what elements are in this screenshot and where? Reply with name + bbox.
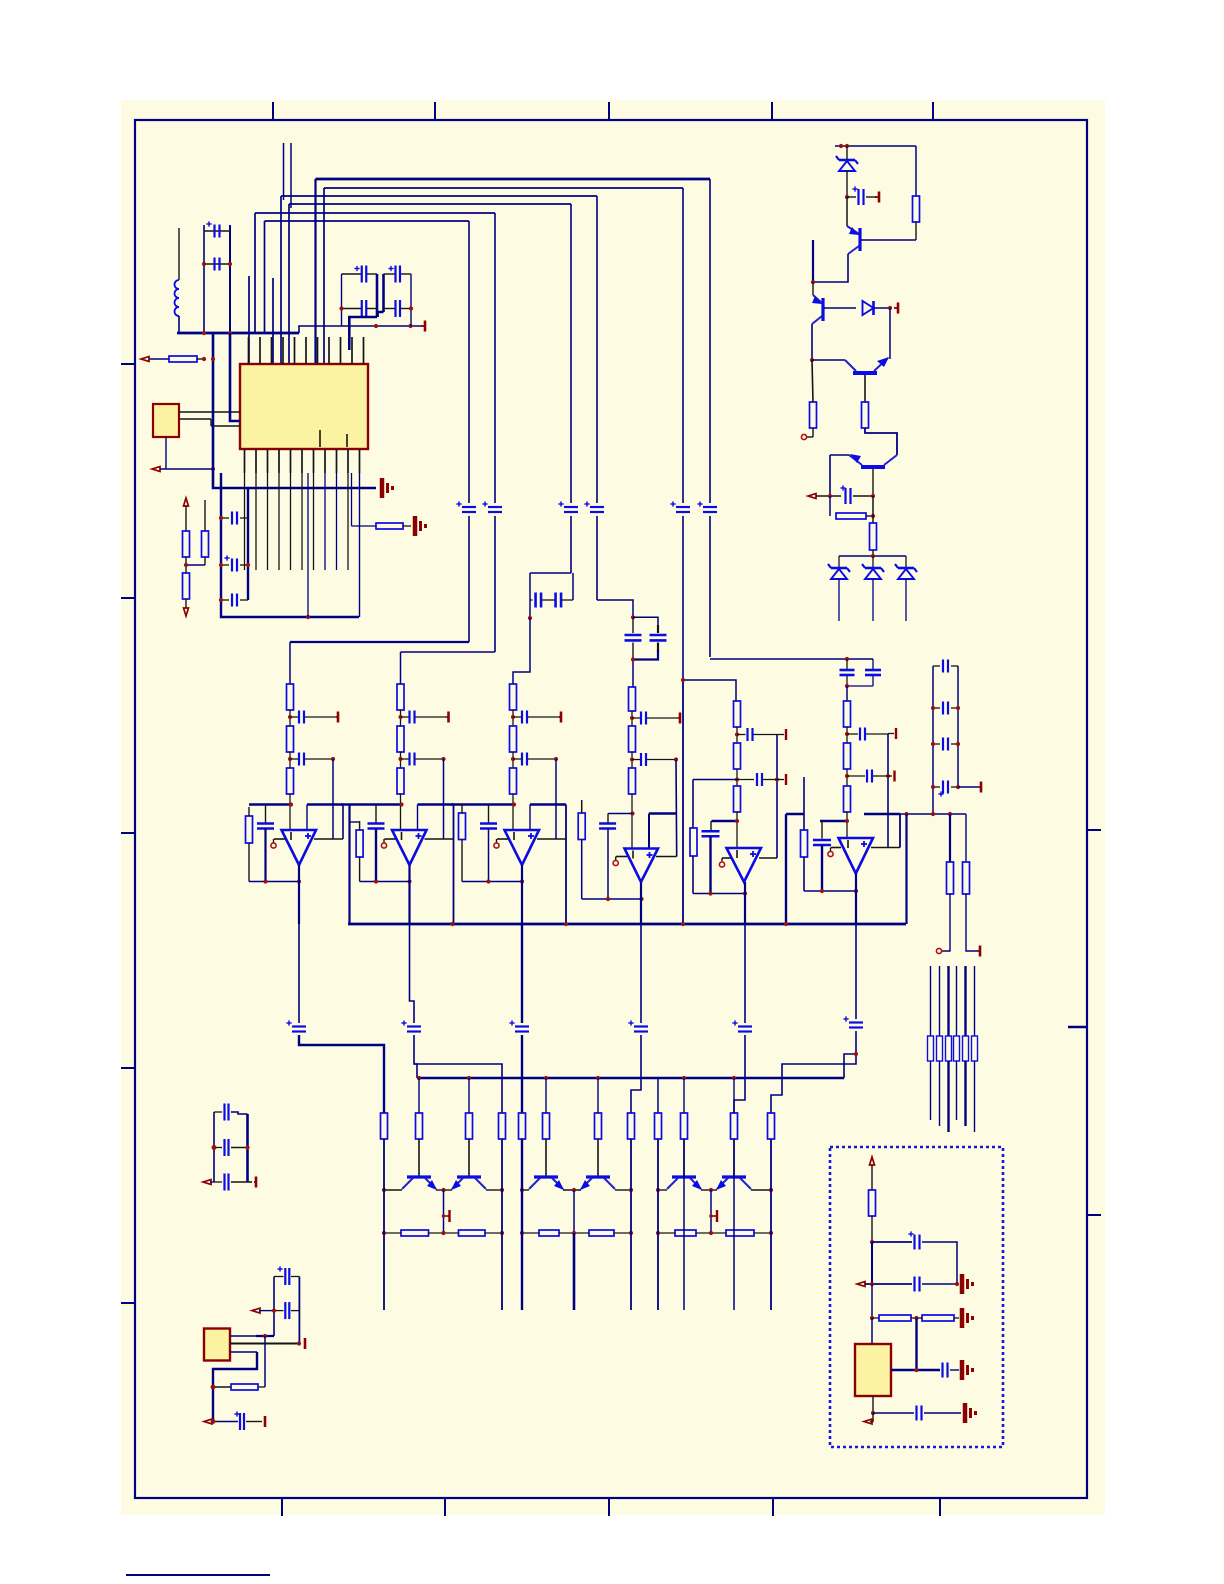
transistor Q4 PNP [849, 454, 897, 467]
capacitor C3c [480, 824, 497, 829]
wire distribution vertical x=495 lower [494, 516, 496, 652]
IC U1 [240, 364, 368, 449]
junction dot [306, 615, 310, 619]
capacitor series electrolytic x=597 [584, 501, 604, 512]
wire cap pair top [204, 230, 230, 232]
capacitor trio 3 [214, 1174, 252, 1191]
wire emitter up Q3 [889, 308, 891, 359]
wire bottom loop ch1 [249, 881, 299, 883]
wire out6 rail [771, 1054, 856, 1113]
wire cap stub ch5 [710, 821, 712, 831]
resistor array g3 x=771 [768, 1113, 775, 1139]
wire cap colB rails [384, 274, 412, 326]
wire out3 upper [521, 924, 523, 1023]
capacitor series electrolytic x=571 [558, 501, 578, 512]
capacitor C6a [847, 728, 888, 741]
power T-bar right section [978, 946, 980, 957]
wire bottom loop ch5 [693, 893, 745, 895]
wire minus input ch6 [831, 847, 841, 849]
wire q row [816, 495, 841, 497]
resistor R1c [287, 768, 294, 830]
zener D3 [828, 564, 850, 579]
wire ch3 drop [513, 618, 530, 684]
regulator U box [855, 1344, 891, 1396]
junction dot [184, 563, 188, 567]
resistor Re g2 left [539, 1230, 559, 1236]
capacitor C5a [737, 728, 777, 741]
wire out4 route [631, 1035, 641, 1113]
transistor Q g1 left NPN [402, 1177, 437, 1190]
wire array long vertical x=574 [573, 1233, 576, 1310]
wire bus line 1 left vertical [314, 179, 316, 364]
capacitor C1b [290, 753, 333, 766]
junction dot [408, 324, 412, 328]
junction dot [263, 879, 301, 883]
capacitor C1c [257, 824, 274, 829]
wire thick jog colB [378, 312, 384, 317]
resistor R horizontal [169, 356, 197, 362]
terminal circle ch4 [613, 857, 618, 866]
junction dot [674, 757, 678, 761]
wire distribution vertical x=571 upper [570, 204, 572, 503]
junction dot [398, 715, 402, 719]
junction dot [631, 615, 635, 619]
wire arrow to resistor [149, 358, 169, 360]
capacitor C4b [632, 753, 676, 766]
terminal circle out [801, 434, 806, 439]
capacitor block B 2 [650, 635, 667, 640]
resistor R q2 [870, 523, 877, 550]
wire out5 upper [744, 924, 746, 1023]
wire g3 center down [710, 1190, 712, 1233]
wire cap down ch4 [607, 829, 609, 900]
op-amp U2 [392, 830, 427, 865]
wire g3 left rail [657, 1139, 659, 1310]
capacitor electrolytic B2 [384, 300, 412, 317]
wire reg bottom right [246, 1421, 262, 1423]
op-amp U4 [625, 849, 659, 883]
wire g1 base leads [419, 1139, 469, 1176]
capacitor electrolytic A1 [342, 266, 378, 283]
border ticks bottom [282, 1498, 940, 1516]
wire node thick left ch3 [451, 803, 515, 805]
resistor R box h2 [922, 1315, 954, 1321]
wire reg cap rails [274, 1277, 299, 1344]
wire distribution vertical x=683 upper [682, 188, 684, 503]
wire main rail horizontal [177, 332, 299, 335]
capacitor block C 1 [840, 659, 855, 686]
resistor R2b [397, 726, 404, 768]
wire distribution vertical x=683 lower [682, 516, 684, 680]
resistor R1d [246, 816, 253, 843]
wire node thick right ch6 [864, 814, 900, 848]
wire q res2 down [872, 550, 874, 556]
wire g1 right rail [501, 1139, 503, 1310]
wire out1 route [299, 1035, 384, 1113]
capacitor series electrolytic x=495 [482, 501, 502, 512]
wire g2 left collector [522, 1189, 529, 1191]
wire box bottom right [924, 1412, 961, 1414]
wire box reg bottom [872, 1396, 874, 1413]
junction dot [202, 262, 206, 266]
wire cap stub ch1 [265, 805, 267, 824]
wire outer rail ch2 [348, 805, 350, 925]
op-amp U1 [282, 830, 317, 865]
regulator pin 3 [213, 1352, 257, 1422]
capacitor C2c [368, 824, 385, 829]
junction dot [631, 657, 635, 661]
wire ch2 input horizontal [401, 651, 496, 653]
wire Q1 collector down [813, 254, 848, 282]
junction dot [708, 891, 747, 895]
power port arrow down [184, 608, 189, 616]
inductor L1 top wire [178, 228, 180, 280]
junction dot [263, 1334, 267, 1338]
capacitor Cout5 electrolytic [732, 1020, 752, 1031]
wire q res right [866, 515, 873, 517]
wire rv join [186, 557, 205, 573]
wire g2 base leads [546, 1139, 598, 1176]
power port T-bar [421, 321, 425, 332]
wire out2 route [414, 1035, 502, 1113]
wire box bottom row [873, 1412, 914, 1414]
junction dot [888, 306, 892, 310]
wire ch1 input horizontal [290, 641, 469, 643]
wire g1 right collector [486, 1189, 502, 1191]
junction dot [709, 1214, 713, 1218]
wire g3 right rail [770, 1139, 772, 1310]
resistor Rv1 [183, 531, 190, 557]
wire node left ch4 [608, 813, 633, 815]
wire node thick left ch5 [712, 820, 738, 822]
terminal circle ch1 [271, 839, 276, 848]
terminal circle ch3 [494, 839, 499, 848]
wire bus line 3 horizontal [281, 195, 597, 197]
power port arrow box bottom [864, 1413, 873, 1424]
junction dot [931, 742, 960, 746]
wire output ch1 [298, 865, 300, 924]
wire g3 left collector [658, 1189, 667, 1191]
resistor R3c [510, 768, 517, 830]
junction dot [630, 811, 634, 815]
capacitor block A 2 [556, 593, 573, 608]
transistor Q g2 left NPN [529, 1177, 564, 1190]
wire ladder tbar [958, 786, 979, 788]
wire to Q2 [812, 282, 814, 295]
wire top right down [915, 146, 917, 196]
wire caps3 right rail [247, 488, 249, 600]
ground box reg [962, 1360, 974, 1380]
wire cap down ch3 [488, 829, 490, 882]
junction dot [211, 1385, 216, 1390]
power port arrow left q [808, 494, 816, 499]
resistor array g1 x=469 [466, 1113, 473, 1139]
ground box bottom [965, 1403, 977, 1423]
power T-bar C5b [777, 774, 786, 785]
wire plus input ch5 [759, 857, 777, 859]
junction dot [331, 757, 335, 761]
terminal circle ch2 [381, 839, 386, 848]
wire output ch6 [855, 874, 857, 925]
resistor array g1 x=419 [416, 1113, 423, 1139]
wire Q3 to Q4 [865, 428, 897, 455]
wire rail to bus ch4 [682, 680, 684, 924]
wire d tail2 [872, 579, 874, 621]
wire ch6 drop [846, 686, 848, 701]
wire minus input ch2 [385, 838, 396, 840]
junction dot [606, 897, 644, 901]
junction dot [914, 1368, 918, 1372]
connector J1 bottom pin [165, 437, 167, 469]
wire bus to ladder [905, 814, 907, 924]
ground box res row [962, 1308, 974, 1328]
wire right rail ch3 [565, 805, 567, 925]
power T-bar g1 [444, 1210, 450, 1222]
wire reg res stubs [213, 1386, 265, 1388]
capacitor C box electrolytic [872, 1231, 957, 1284]
power port arrow reg [252, 1308, 274, 1313]
resistor Re g3 left [675, 1230, 696, 1236]
capacitor Cout4 electrolytic [628, 1020, 648, 1031]
junction dot [630, 716, 634, 720]
capacitor C6c [813, 840, 831, 845]
wire fb rail ch4 [675, 760, 678, 857]
wire Q4 base down [872, 469, 874, 496]
junction dot [520, 1188, 633, 1192]
wire Q3 collector down [864, 375, 866, 402]
resistor R right 1 [947, 862, 954, 894]
wire caps3 cap1 [221, 517, 248, 519]
wire pin up from rail B [359, 473, 361, 617]
junction dot [871, 1411, 875, 1415]
power T-bar reg [304, 1338, 307, 1349]
border ticks left [121, 364, 135, 1303]
wire distribution vertical x=710 lower [709, 516, 711, 657]
wire fb rail ch6 [887, 734, 889, 848]
junction dot [288, 715, 292, 719]
wire ladder rails [933, 666, 958, 814]
capacitor block C 2 [847, 659, 881, 686]
wire caps3 cap3 [221, 599, 248, 601]
wire Q2 collector down [811, 324, 813, 360]
wire bus line 6 left vertical [264, 221, 266, 333]
wire node thick left ch1 [249, 803, 291, 805]
resistor array g1 x=502 [499, 1113, 506, 1139]
wire bus line 2 horizontal [324, 187, 683, 189]
junction dot [398, 757, 402, 761]
junction dot [417, 1076, 736, 1080]
wire bus line 6 horizontal [265, 220, 470, 222]
wire box mid down [915, 1318, 917, 1370]
wire box left rail [871, 1284, 873, 1318]
wire distribution vertical x=571 lower [570, 516, 572, 573]
wire bus line 4 left vertical [288, 204, 290, 364]
power T-bar g3 [711, 1210, 717, 1222]
transistor Q3 NPN [845, 357, 889, 373]
capacitor Cout3 electrolytic [509, 1020, 529, 1031]
wire outer rail ch5 lower [692, 856, 694, 894]
wire g3 emitters [701, 1189, 717, 1191]
wire array long vertical x=522 [521, 1139, 523, 1310]
title underline [126, 1574, 270, 1576]
junction dot [845, 684, 849, 688]
capacitor series electrolytic x=469 [456, 501, 476, 512]
wire out3 route [521, 1035, 523, 1113]
ground earth rotated B [415, 516, 427, 536]
junction dot [441, 757, 445, 761]
wire plus stub ch1 [306, 805, 308, 831]
wire g1 left rail [383, 1139, 385, 1310]
wire right riser to ladder row [786, 814, 804, 924]
wire rail step [299, 326, 320, 333]
junction dot [382, 1231, 504, 1235]
wire g1 center down [443, 1190, 445, 1233]
resistor bundle row [928, 1036, 978, 1061]
capacitor electrolytic B1 [384, 266, 412, 283]
power T-bar ladder [979, 782, 981, 793]
resistor R right 2 [963, 862, 970, 894]
junction dot [811, 280, 815, 284]
wire d tail1 [838, 579, 840, 621]
capacitor block A 1 [530, 593, 556, 608]
junction dot [212, 1145, 250, 1150]
wire outer rail ch6 upper [803, 777, 805, 830]
wire distribution vertical x=469 upper [468, 221, 470, 503]
wire array long vertical x=684 [683, 1139, 685, 1310]
wire box res row [872, 1317, 959, 1319]
wire minus input ch3 [497, 838, 508, 840]
IC U1 bottom pins [245, 449, 360, 473]
resistor R6b [844, 743, 851, 786]
junction dot [681, 678, 685, 682]
capacitor series electrolytic x=710 [697, 501, 717, 512]
resistor R2d [356, 830, 363, 857]
ground earth rotated A [382, 478, 394, 498]
wire vcc [185, 506, 187, 531]
capacitor C elec q [840, 485, 850, 504]
wire box reg out [891, 1369, 940, 1371]
junction dot [211, 357, 215, 361]
resistor R reg [231, 1384, 258, 1390]
resistor array g2 x=546 [543, 1113, 550, 1139]
wire opamp output bus [348, 923, 906, 926]
junction dot [374, 879, 412, 883]
wire node thick left ch2 [341, 803, 402, 805]
junction dot [871, 494, 875, 498]
junction dot [528, 616, 532, 620]
wire plus input ch2 [425, 838, 454, 840]
wire g2 emitters [563, 1189, 581, 1191]
wire outer rail ch6 lower [803, 857, 805, 891]
transistor Q g3 left NPN [667, 1177, 702, 1190]
capacitor ladder 1 [933, 660, 958, 673]
capacitor C box 4 [917, 1406, 922, 1421]
wire ch1 input drop [289, 642, 291, 684]
wire cap stub ch6 [821, 821, 823, 839]
resistor R5b [734, 743, 741, 786]
wire g2 right rail [630, 1139, 632, 1310]
junction dot [228, 331, 232, 335]
wire zener down [846, 146, 848, 197]
wire right rail ch1 [342, 805, 344, 840]
wire g1 collector feeds [419, 1078, 469, 1113]
capacitor Cout6 electrolytic [843, 1016, 863, 1027]
wire bundle upper [931, 966, 975, 1036]
resistor array g2 x=522 [519, 1113, 526, 1139]
wire bus line 4 horizontal [289, 203, 571, 205]
resistor R power1 [913, 196, 920, 222]
resistor R4d [578, 813, 585, 840]
wire minus input ch1 [274, 838, 285, 840]
IC U1 inner marks [320, 430, 347, 447]
wire ch5 jog [683, 680, 736, 701]
wire vertical to IC pin [248, 276, 250, 364]
resistor array g3 x=658 [655, 1113, 662, 1139]
ground box row2 [962, 1274, 974, 1294]
zener D1 [836, 156, 858, 171]
resistor Re g3 right [726, 1230, 754, 1236]
wire output ch2 [408, 865, 410, 924]
junction dot [735, 777, 739, 781]
resistor R box h1 [879, 1315, 911, 1321]
regulator pin 2 [230, 1343, 297, 1345]
terminal circle ch5 [719, 858, 724, 867]
capacitor C3b [513, 753, 556, 766]
resistor R4a [629, 687, 636, 726]
junction dot [272, 1309, 276, 1313]
wire fb rail ch5 [776, 735, 778, 859]
power port arrow left 2 [152, 467, 160, 472]
junction dot [520, 1231, 633, 1235]
resistor R2a [397, 684, 404, 726]
capacitor C2a [401, 711, 447, 724]
capacitor electrolytic A2 [342, 300, 378, 317]
resistor R3b [510, 726, 517, 768]
wire minus input ch5 [722, 857, 731, 859]
wire thick rail into IC [230, 333, 240, 421]
capacitor reg electrolytic [274, 1266, 299, 1285]
resistor array g3 x=684 [681, 1113, 688, 1139]
capacitor reg 3 electrolytic [234, 1411, 244, 1430]
dashed function box [830, 1147, 1003, 1447]
junction dot [870, 1282, 874, 1286]
wire cb left ch5 [693, 779, 737, 781]
wire rd stubs ch1 [248, 807, 250, 882]
wire distribution vertical x=710 upper [709, 179, 711, 503]
capacitor trio 1 [214, 1104, 248, 1121]
wire minus input ch4 [616, 856, 627, 858]
wire cap down thick ch6 [821, 845, 823, 891]
capacitor series electrolytic x=683 [670, 501, 690, 512]
resistor R q3 [862, 402, 869, 428]
junction dot [775, 777, 779, 781]
junction dot [845, 774, 849, 778]
wire thick rail down B [221, 473, 359, 617]
wire diode to node [874, 307, 890, 309]
terminal circle right [936, 948, 941, 953]
wire out6 route [844, 1031, 856, 1078]
wire bus line 2 left vertical [323, 188, 325, 364]
resistor R1b [287, 726, 294, 768]
wire fb rail ch3 [555, 759, 557, 839]
wire thick jog colA [349, 317, 377, 350]
junction dot [486, 879, 524, 883]
wire block B join [633, 643, 658, 660]
wire node to Q3 [812, 359, 845, 361]
wire caps3 cap2 [221, 564, 248, 566]
capacitor C box 2 [915, 1277, 920, 1292]
wire stub up [812, 240, 814, 282]
